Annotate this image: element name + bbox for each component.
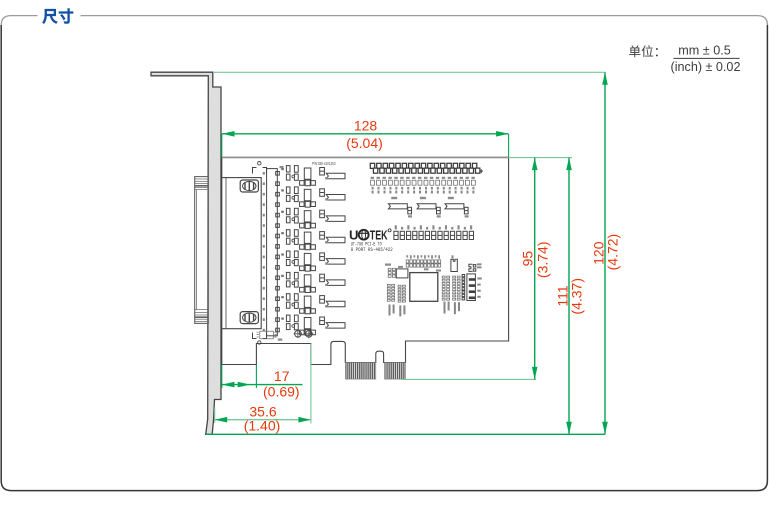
PCI-E gold fingers block 1	[345, 363, 376, 380]
svg-text:单位：: 单位：	[629, 45, 667, 59]
isolation channel row 6 (opto/transformer/transceiver U14)	[281, 275, 284, 277]
chip U48	[417, 204, 440, 214]
svg-text:(5.04): (5.04)	[346, 135, 383, 151]
isolation channel row 5 (opto/transformer/transceiver U13)	[281, 253, 284, 255]
PCB top edge (gray)	[222, 156, 509, 158]
status LED row D1-D18	[371, 180, 476, 185]
crystal Y1 / C50 REF	[469, 264, 476, 271]
dimension 95 bottom extension line	[402, 378, 536, 380]
svg-text:(4.72): (4.72)	[604, 234, 620, 271]
mounting bracket (gray)	[151, 72, 221, 434]
decoupling capacitor row C-row	[394, 231, 474, 239]
dimension line 128 (5.04)	[222, 133, 508, 135]
jack screw top	[240, 180, 258, 192]
isolation channel row 4 (opto/transformer/transceiver U12)	[281, 232, 284, 234]
silk corner marks top	[253, 162, 267, 174]
svg-text:(3.74): (3.74)	[534, 242, 550, 279]
long pin header J-top	[370, 163, 480, 173]
DB62 connector shell (behind bracket)	[195, 177, 209, 324]
svg-text:P/N:039-4101353: P/N:039-4101353	[312, 161, 336, 166]
svg-text:(1.40): (1.40)	[244, 417, 281, 433]
inductor block L2-L4/C47	[462, 274, 475, 301]
svg-text:8 PORT RS-485/422: 8 PORT RS-485/422	[351, 247, 393, 253]
PCI-E gold fingers block 2	[385, 363, 406, 380]
DIP footprint U32	[453, 276, 460, 300]
dimension 17 extension lines	[221, 365, 223, 389]
svg-text:TEK: TEK	[370, 227, 388, 242]
isolation channel row 7 (opto/transformer/transceiver U15)	[281, 296, 284, 298]
mounting hole H2	[305, 330, 314, 339]
component U29 pads	[388, 268, 395, 277]
bottom chip U40	[257, 331, 277, 339]
mounting hole H1	[294, 330, 303, 339]
header J30 (10 pin, 2 rows)	[406, 260, 441, 267]
dimension line 35.6 (1.40)	[215, 419, 311, 421]
isolation channel row 3 (opto/transformer/transceiver U11)	[281, 211, 284, 213]
isolation channel row 1 (opto/transformer/transceiver U9)	[281, 168, 284, 170]
silk corner marks bottom	[253, 333, 267, 345]
dimension 35.6 extension lines	[214, 408, 216, 423]
small chip U28	[396, 269, 408, 278]
PCB board outline	[222, 157, 509, 364]
dimension 128 extension lines	[221, 134, 223, 158]
dimension line 111 (4.37)	[568, 158, 570, 435]
DIP footprint U31	[442, 276, 449, 300]
svg-text:(4.37): (4.37)	[569, 278, 585, 315]
jack screw bottom	[240, 312, 258, 324]
svg-text:mm ± 0.5: mm ± 0.5	[678, 44, 730, 58]
svg-text:17: 17	[274, 368, 290, 384]
isolation channel row 8 (opto/transformer/transceiver U16)	[281, 318, 284, 320]
dimension line 17 (0.69)	[222, 384, 303, 386]
DB62 connector body on PCB	[222, 178, 261, 329]
svg-text:128: 128	[354, 118, 378, 134]
dimension line 95 (3.74)	[534, 158, 536, 380]
dimension 95/111 top extension line	[509, 157, 572, 159]
svg-text:+: +	[479, 168, 483, 175]
main controller QFP U26	[410, 273, 438, 302]
bottom reference line	[206, 433, 605, 435]
svg-text:(inch) ± 0.02: (inch) ± 0.02	[671, 60, 741, 74]
svg-text:95: 95	[520, 251, 536, 267]
resistor array RA2 pads	[398, 285, 405, 302]
chip U49	[445, 204, 468, 214]
svg-text:尺寸: 尺寸	[43, 8, 75, 26]
svg-text:(0.69): (0.69)	[263, 384, 300, 400]
regulator U34	[451, 259, 457, 271]
isolation channel row 2 (opto/transformer/transceiver U10)	[281, 189, 284, 191]
resistor array RA1 pads	[387, 284, 394, 301]
svg-text:U: U	[349, 227, 359, 242]
pin number labels	[263, 172, 265, 331]
dimension line 120 (4.72)	[604, 72, 606, 434]
chip U47	[388, 204, 411, 214]
dimension 120 top extension line	[214, 71, 605, 73]
pin header column J10	[267, 169, 278, 336]
